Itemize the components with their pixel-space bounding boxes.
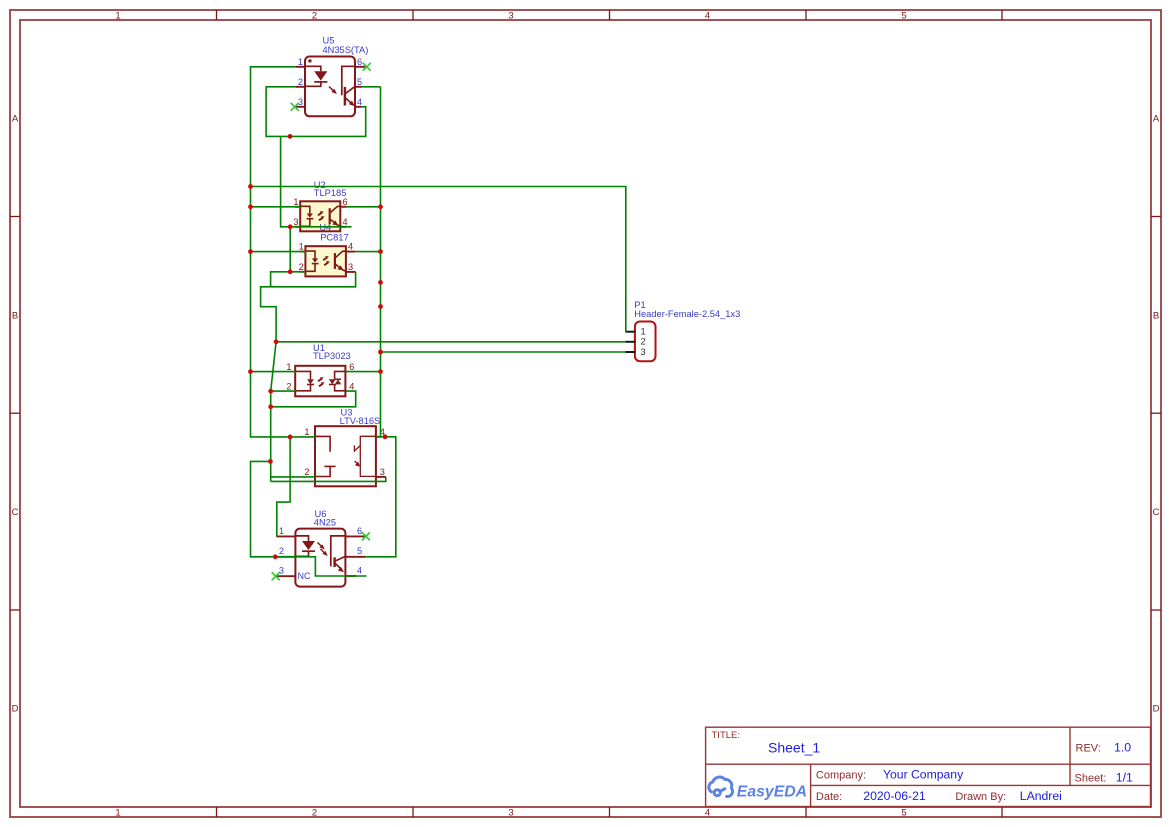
svg-text:5: 5 (357, 546, 362, 556)
svg-text:D: D (12, 704, 19, 715)
svg-text:LAndrei: LAndrei (1020, 789, 1062, 803)
svg-text:3: 3 (348, 262, 353, 272)
U5 pin stubs (295, 67, 366, 107)
wire U4 pin2 riser (289, 227, 291, 272)
svg-text:Header-Female-2.54_1x3: Header-Female-2.54_1x3 (634, 309, 740, 319)
U6 pin stubs (276, 536, 365, 576)
svg-text:B: B (12, 310, 18, 321)
svg-text:4N25: 4N25 (314, 518, 336, 528)
U4 pin stubs (300, 252, 355, 272)
junction J10 (288, 134, 293, 139)
svg-text:5: 5 (357, 77, 362, 87)
row letters right (1153, 114, 1160, 715)
svg-text:2: 2 (312, 10, 317, 21)
junction J18 (378, 350, 383, 355)
svg-text:REV:: REV: (1076, 743, 1101, 755)
U4 pin numbers (299, 242, 354, 272)
svg-text:Company:: Company: (816, 770, 866, 782)
U1 internal diac (329, 371, 346, 390)
U5 pin numbers (298, 57, 362, 107)
junction J1 (248, 184, 253, 189)
svg-text:C: C (1153, 507, 1160, 518)
P1 pin stubs (626, 332, 636, 352)
svg-text:TLP185: TLP185 (314, 188, 347, 198)
svg-text:PC817: PC817 (320, 232, 348, 242)
wire U3 pin3 loop through box (271, 477, 386, 482)
wire right bus to header pin3 (381, 351, 626, 353)
svg-text:Sheet_1: Sheet_1 (768, 740, 820, 756)
svg-text:1: 1 (299, 242, 304, 252)
svg-text:TLP3023: TLP3023 (313, 351, 351, 361)
wire U2 pin4 tail through box (301, 226, 352, 228)
svg-text:NC: NC (298, 571, 311, 581)
svg-text:2: 2 (298, 77, 303, 87)
junction J17 (378, 304, 383, 309)
svg-text:6: 6 (349, 362, 354, 372)
svg-text:4N35S(TA): 4N35S(TA) (323, 45, 369, 55)
svg-text:3: 3 (508, 807, 513, 818)
opto-coupler U3 body LTV-816S (315, 426, 376, 486)
wires (251, 67, 626, 576)
svg-text:1: 1 (115, 10, 120, 21)
junction J14 (378, 204, 383, 209)
svg-text:3: 3 (279, 566, 284, 576)
no-connect X U6 pin6 (362, 532, 370, 540)
svg-text:4: 4 (705, 10, 710, 21)
junction J19 (378, 369, 383, 374)
U5 internal LED (305, 66, 327, 86)
svg-text:4: 4 (348, 242, 353, 252)
svg-text:4: 4 (343, 217, 348, 227)
svg-text:4: 4 (357, 97, 362, 107)
svg-text:4: 4 (357, 566, 362, 576)
svg-text:2020-06-21: 2020-06-21 (863, 789, 926, 803)
svg-text:Date:: Date: (816, 791, 842, 803)
svg-text:B: B (1153, 310, 1159, 321)
U5 internal transistor (342, 66, 355, 105)
U5 light arrow (329, 87, 335, 92)
U4 internal LED (305, 251, 318, 271)
svg-text:5: 5 (901, 10, 906, 21)
U4 light arrows (323, 258, 328, 266)
junction J8 (268, 459, 273, 464)
junction J4 (248, 369, 253, 374)
svg-text:3: 3 (293, 217, 298, 227)
U2 internal transistor (330, 206, 341, 226)
column numbers bottom (115, 807, 906, 818)
svg-text:1: 1 (286, 362, 291, 372)
P1 pin numbers (641, 327, 646, 357)
svg-text:5: 5 (901, 807, 906, 818)
junction J13 (288, 435, 293, 440)
wire U4 pin3 loop (271, 272, 356, 287)
U3 pin stubs (376, 437, 385, 477)
wire slant to U1 pin2 (271, 342, 296, 391)
junction J12 (288, 269, 293, 274)
junction J3 (248, 249, 253, 254)
no-connect X U5 pin3 (291, 103, 299, 111)
opto-coupler U4 body PC817 (305, 246, 346, 276)
column ticks top (217, 10, 1003, 20)
svg-text:2: 2 (286, 382, 291, 392)
svg-text:3: 3 (641, 347, 646, 357)
wire zigzag down to header row (261, 287, 277, 342)
svg-text:U4: U4 (319, 223, 331, 233)
junction J6 (268, 389, 273, 394)
junction J9 (273, 554, 278, 559)
wire U1 pin4 loop (271, 391, 356, 407)
wire U5 pin2 loop to U5 pin4 (266, 87, 366, 137)
no-connect X U5 pin6 (363, 63, 371, 71)
svg-text:Drawn By:: Drawn By: (955, 791, 1006, 803)
U4 internal transistor (335, 251, 346, 271)
svg-text:1: 1 (298, 57, 303, 67)
wire U5 pin1 to left bus down to U3 pin1 (251, 67, 316, 437)
svg-text:6: 6 (357, 57, 362, 67)
wire U1 left vertical down (270, 391, 272, 481)
U1 internal LED (295, 371, 314, 390)
svg-text:1: 1 (293, 197, 298, 207)
U6 internal LED (295, 536, 315, 556)
wire header pin2 row (276, 341, 625, 343)
svg-text:TITLE:: TITLE: (712, 730, 741, 741)
wire top net to header pin1 (251, 187, 626, 332)
svg-text:1: 1 (115, 807, 120, 818)
svg-text:A: A (12, 114, 19, 125)
svg-text:2: 2 (299, 262, 304, 272)
U2 internal LED (300, 206, 313, 226)
opto-triac U1 body TLP3023 (295, 366, 345, 397)
wire right bus vertical (380, 87, 382, 437)
title block outline (706, 727, 1151, 806)
U6 pin numbers (279, 526, 362, 576)
wire U2 pin3 riser (281, 136, 301, 226)
wire U2 pin1 row (251, 206, 301, 208)
wire U1 pin6 to right bus (346, 371, 381, 373)
opto-coupler U2 body TLP185 (300, 201, 340, 231)
row letters left (12, 114, 19, 715)
row ticks left (10, 217, 20, 611)
U1 pin numbers (286, 362, 354, 392)
U6 internal transistor (331, 536, 346, 569)
U2 light arrows (318, 213, 323, 221)
svg-text:1: 1 (641, 327, 646, 337)
wire U3 pin1 junction down to U6 pin1 (277, 437, 290, 537)
wire U4 pin4 to right bus (355, 251, 380, 253)
svg-text:1: 1 (304, 427, 309, 437)
svg-text:1.0: 1.0 (1114, 741, 1131, 755)
junction J15 (378, 249, 383, 254)
svg-text:2: 2 (312, 807, 317, 818)
junction J5 (274, 339, 279, 344)
svg-text:EasyEDA: EasyEDA (737, 784, 807, 801)
svg-text:4: 4 (705, 807, 710, 818)
EasyEDA logo cloud (709, 777, 733, 796)
header P1 body (635, 322, 656, 362)
U3 internal LED (315, 436, 336, 476)
no-connect X U6 pin3 (272, 572, 280, 580)
junction J7 (268, 404, 273, 409)
junction J2 (248, 204, 253, 209)
wire U4 pin2 to zigzag (271, 272, 306, 287)
svg-text:6: 6 (357, 526, 362, 536)
svg-text:2: 2 (279, 546, 284, 556)
svg-text:1/1: 1/1 (1116, 771, 1133, 785)
U3 pin numbers (304, 427, 385, 477)
wire U5 pin5 to right bus (362, 86, 381, 88)
svg-text:Sheet:: Sheet: (1075, 773, 1107, 785)
svg-text:C: C (12, 507, 19, 518)
opto-coupler U5 body 4N35S (305, 57, 355, 117)
svg-text:3: 3 (508, 10, 513, 21)
wire U3 pin2 row (271, 476, 316, 478)
U6 light arrows (318, 543, 326, 554)
U2 pin numbers (293, 197, 347, 227)
svg-text:2: 2 (641, 337, 646, 347)
svg-text:4: 4 (349, 382, 354, 392)
svg-text:Your Company: Your Company (883, 768, 964, 782)
svg-text:LTV-816S: LTV-816S (340, 416, 381, 426)
U3 internal transistor (354, 436, 376, 476)
wire U4 pin1 row (251, 251, 306, 253)
junction J11 (288, 224, 293, 229)
svg-text:3: 3 (298, 97, 303, 107)
column ticks bottom (217, 807, 1003, 817)
wire U1 pin1 row (251, 371, 296, 373)
U2 pin stubs (295, 207, 346, 227)
row ticks right (1151, 217, 1161, 611)
wire U3 pin4 to U6 pin5 (366, 437, 396, 557)
svg-text:3: 3 (380, 467, 385, 477)
opto-coupler U6 body 4N25 (295, 529, 345, 587)
U1 light arrows (318, 379, 323, 387)
wire left bus lower to U6 pin2 and pin4 (251, 461, 367, 576)
svg-text:2: 2 (304, 467, 309, 477)
svg-text:A: A (1153, 114, 1160, 125)
wire U2 pin6 to right bus (346, 206, 380, 208)
svg-text:1: 1 (279, 526, 284, 536)
svg-text:D: D (1153, 704, 1160, 715)
column numbers top (115, 10, 906, 21)
junction J16 (378, 280, 383, 285)
svg-text:6: 6 (343, 197, 348, 207)
junction J20 (383, 434, 388, 439)
